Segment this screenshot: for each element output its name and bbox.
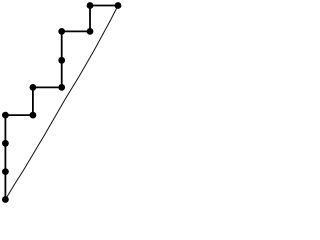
wire vertical segment col3	[89, 6, 91, 32]
wire vertical segment col0	[4, 115, 6, 199]
node (2,4)	[58, 84, 65, 91]
node (1,3)	[30, 112, 37, 119]
wire horizontal segment row4	[5, 114, 33, 116]
wire horizontal segment row3	[33, 86, 62, 88]
node (0,2)	[2, 140, 9, 147]
wire horizontal segment row1	[62, 30, 90, 32]
node (3,6)	[87, 28, 94, 35]
wire vertical segment col1	[32, 87, 34, 115]
diagonal chord from top-right node to bottom-left node	[5, 6, 118, 200]
node (3,7)	[87, 2, 94, 9]
node (2,6)	[58, 28, 65, 35]
node (0,0) bottom-left	[2, 196, 9, 203]
node (1,4)	[30, 84, 37, 91]
wire top horizontal segment	[90, 5, 118, 7]
node (2,5)	[58, 57, 65, 64]
node (0,1)	[2, 168, 9, 175]
wire vertical segment col2	[61, 31, 63, 87]
node (0,3)	[2, 112, 9, 119]
node (4,7) top-right	[115, 2, 122, 9]
